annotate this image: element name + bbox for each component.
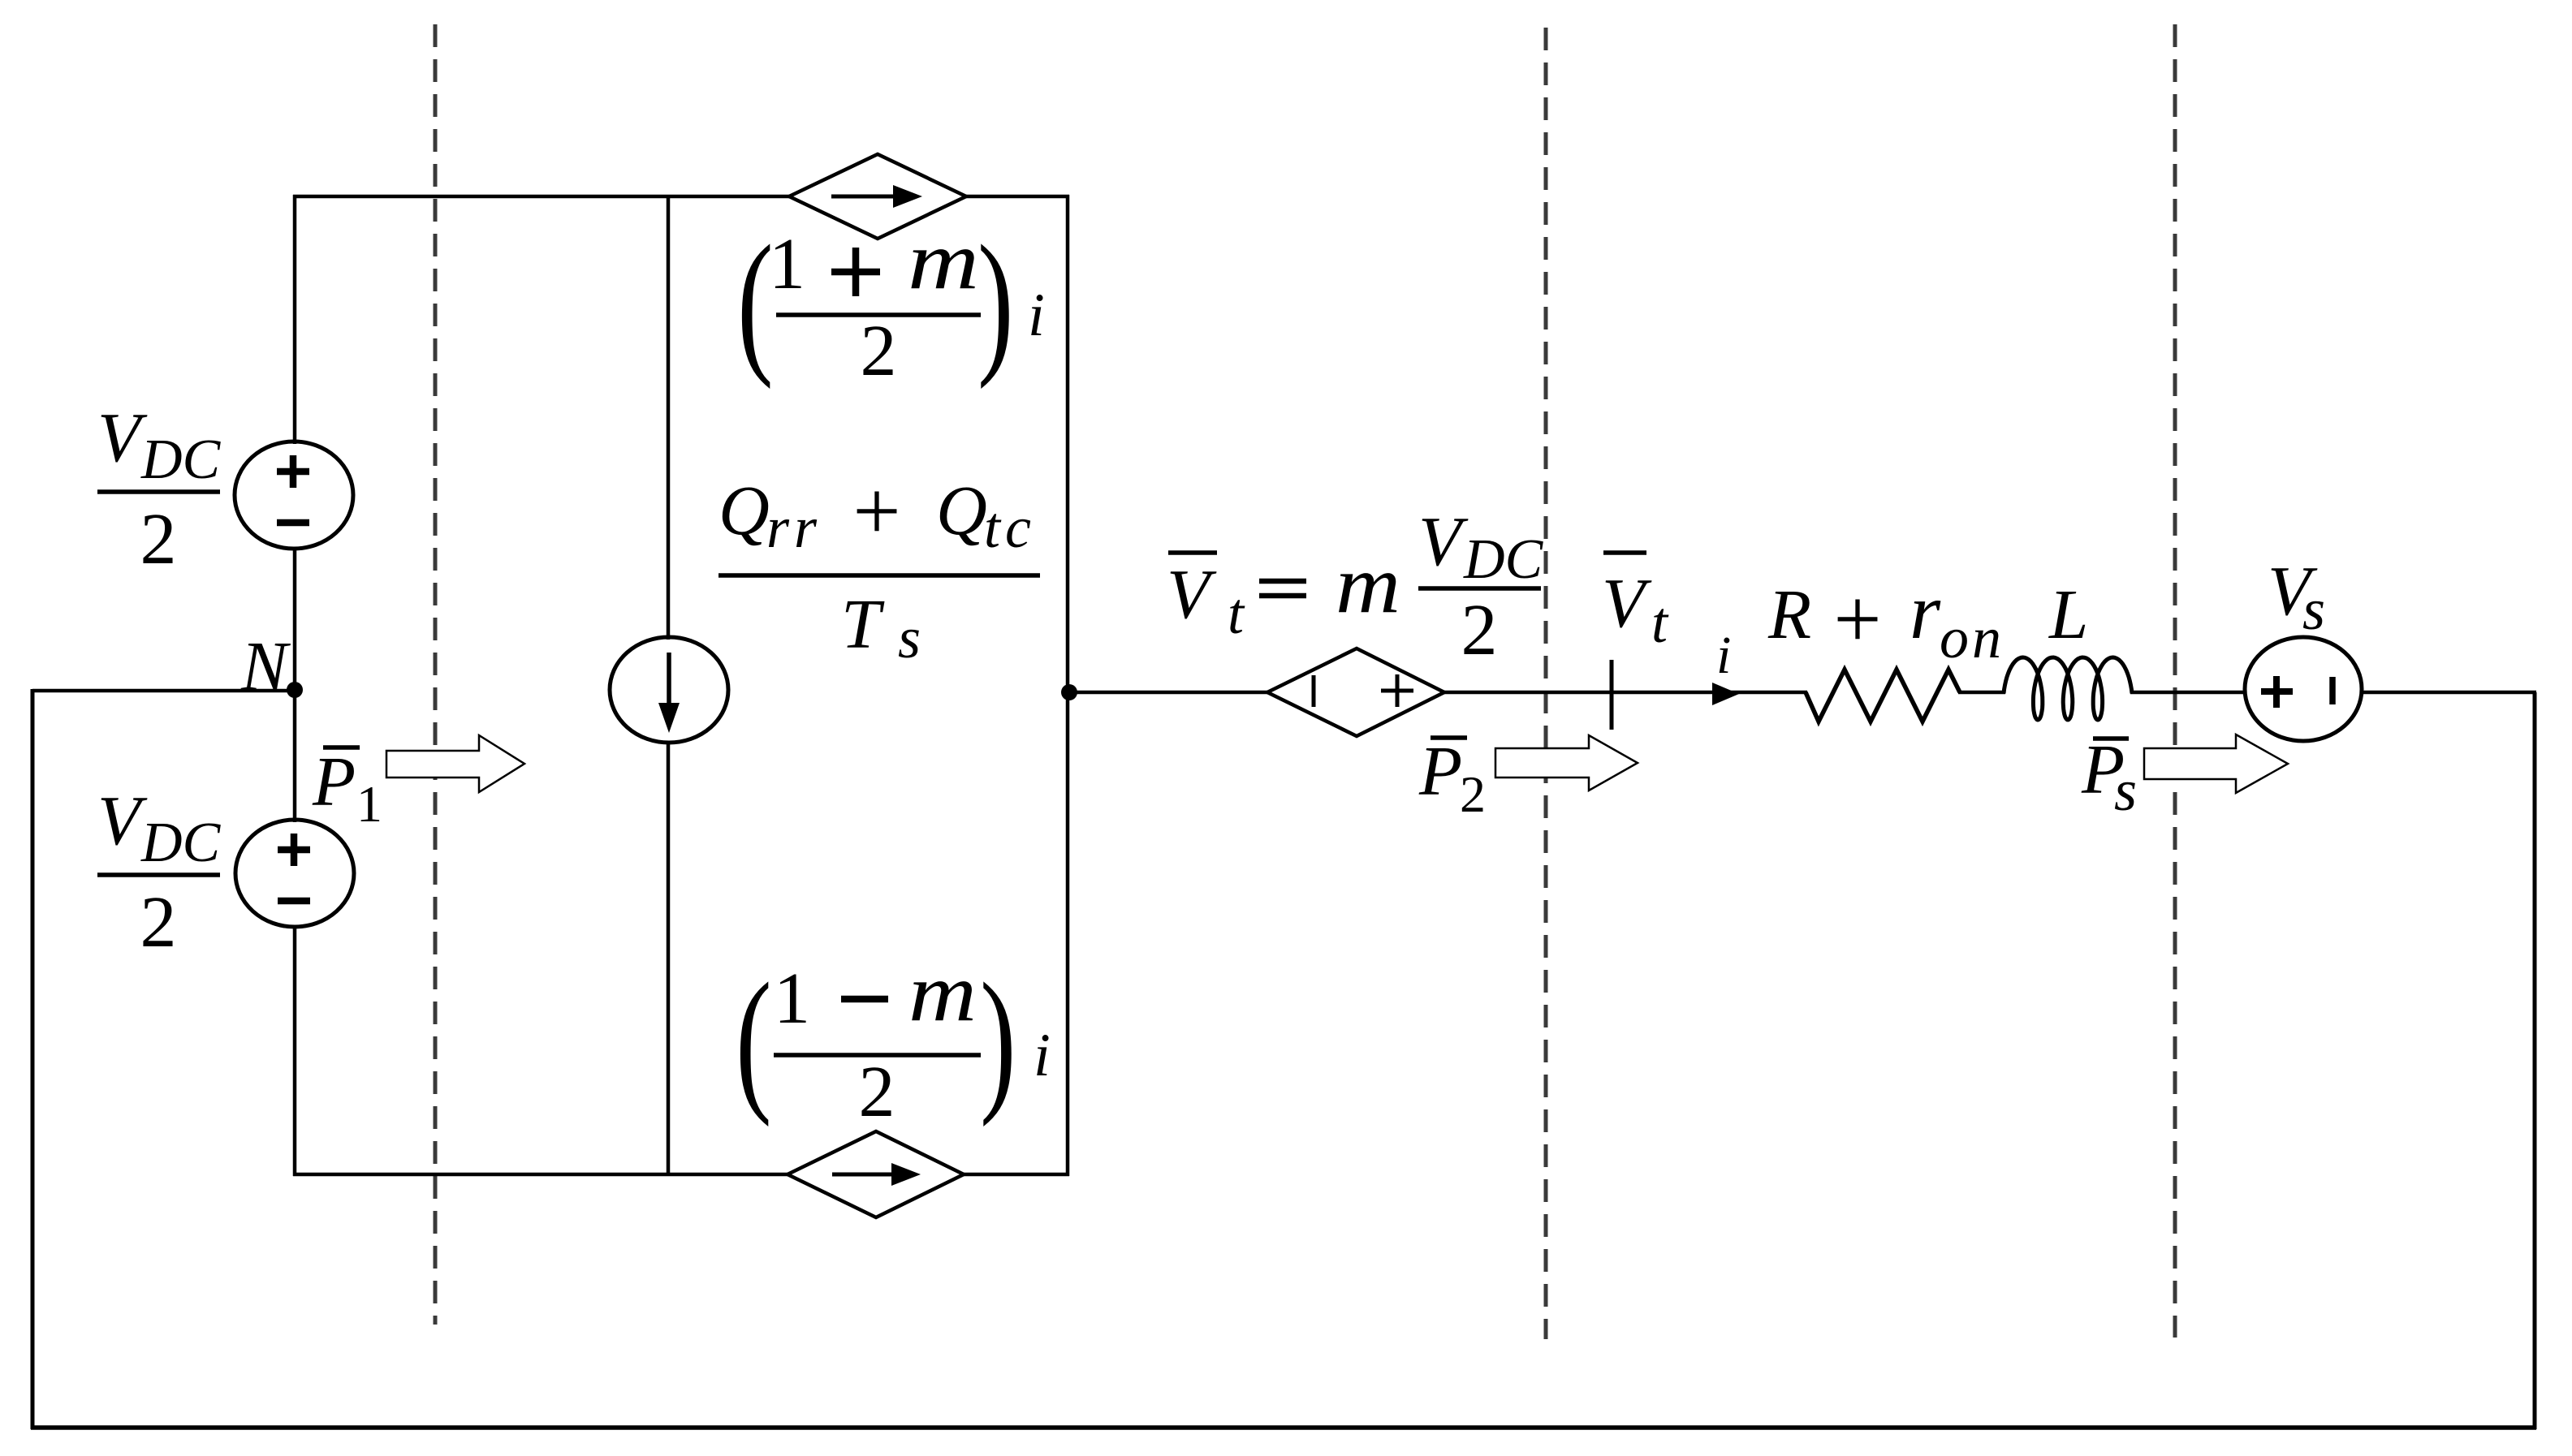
svg-text:on: on: [1940, 605, 2005, 670]
label P2: [1418, 731, 1486, 823]
svg-text:+: +: [852, 463, 900, 558]
label Qrr+Qtc/Ts: [719, 463, 1040, 670]
resistor R+ron: [1806, 670, 1960, 722]
label Ps: [2081, 730, 2137, 823]
svg-text:): ): [977, 213, 1014, 390]
power arrow P2: [1495, 735, 1638, 790]
label VDC/2 lower: [97, 781, 222, 963]
output node dot: [1061, 684, 1077, 700]
dependent current source diamond top: [789, 154, 966, 239]
svg-text:+: +: [1833, 571, 1881, 666]
svg-text:i: i: [1716, 626, 1731, 685]
svg-text:N: N: [240, 627, 291, 705]
svg-text:2: 2: [140, 499, 177, 579]
power arrow Ps: [2144, 734, 2288, 793]
svg-text:V: V: [97, 398, 148, 476]
svg-text:s: s: [2114, 758, 2137, 823]
wire inductor to source Vs: [2130, 691, 2246, 695]
wire outer bottom horizontal: [31, 1425, 2536, 1430]
label (1-m)/2 i bottom: [736, 947, 1051, 1132]
label VDC/2 upper: [97, 398, 222, 579]
label Vs: [2268, 551, 2325, 642]
voltage source Vs: [2245, 637, 2362, 741]
svg-text:2: 2: [140, 882, 177, 963]
svg-text:t: t: [1228, 581, 1245, 646]
svg-text:P: P: [1418, 731, 1462, 810]
svg-text:): ): [980, 951, 1016, 1128]
svg-text:m: m: [1336, 539, 1400, 631]
label (1+m)/2 i top: [737, 213, 1045, 391]
svg-text:tc: tc: [984, 495, 1036, 560]
svg-text:V: V: [1418, 502, 1469, 580]
svg-text:2: 2: [1460, 765, 1486, 823]
wire output node to dependent source: [1068, 691, 1271, 695]
svg-text:2: 2: [859, 1052, 895, 1132]
boundary dashed line 3: [2173, 24, 2177, 1338]
svg-text:i: i: [1034, 1022, 1051, 1089]
wire inner bottom left segment: [293, 1173, 791, 1177]
svg-text:2: 2: [861, 311, 897, 391]
wire inner right vertical: [1066, 195, 1070, 1176]
controlled current source circle: [610, 637, 728, 743]
svg-text:DC: DC: [1463, 528, 1544, 591]
wire middle vertical upper: [667, 195, 671, 640]
label Vt = m VDC/2: [1167, 502, 1544, 670]
svg-text:2: 2: [1461, 590, 1498, 670]
svg-text:s: s: [898, 605, 921, 670]
boundary dashed line 1: [434, 24, 438, 1325]
inductor L: [2004, 657, 2132, 720]
svg-text:(: (: [737, 213, 774, 390]
dependent voltage source diamond: [1267, 648, 1444, 736]
svg-text:t: t: [1651, 590, 1669, 655]
wire outer right vertical: [2533, 692, 2537, 1429]
wire resistor to inductor: [1958, 691, 2005, 695]
wire left branch vertical lower: [293, 925, 297, 1176]
svg-text:1: 1: [769, 224, 805, 304]
wire inner bottom right segment: [961, 1173, 1069, 1177]
current arrow on wire: [1712, 683, 1739, 705]
wire dependent source to resistor: [1441, 691, 1807, 695]
wire top horizontal left segment: [293, 195, 791, 199]
svg-text:r: r: [1910, 568, 1941, 656]
svg-text:L: L: [2048, 575, 2088, 653]
svg-text:s: s: [2302, 577, 2325, 642]
wire source Vs to right corner: [2361, 691, 2536, 695]
svg-text:(: (: [736, 951, 772, 1128]
label P1: [312, 742, 382, 833]
svg-text:V: V: [97, 781, 148, 859]
boundary dashed line 2: [1544, 28, 1548, 1339]
wire middle vertical lower: [667, 741, 671, 1176]
wire outer left vertical: [31, 689, 35, 1429]
svg-text:Q: Q: [719, 471, 770, 549]
node N: [240, 627, 303, 705]
svg-text:rr: rr: [766, 495, 822, 560]
dependent current source diamond bottom: [788, 1131, 964, 1217]
svg-text:Q: Q: [936, 471, 987, 549]
svg-text:P: P: [312, 742, 356, 821]
voltage source VDC/2 lower: [235, 820, 354, 927]
svg-text:m: m: [908, 215, 979, 307]
power arrow P1: [386, 735, 524, 792]
svg-text:DC: DC: [140, 429, 222, 491]
svg-text:1: 1: [356, 775, 382, 833]
svg-text:V: V: [1602, 563, 1652, 642]
wire node N horizontal: [32, 689, 295, 693]
wire top horizontal right segment: [964, 195, 1069, 199]
label Vt tick: [1602, 553, 1669, 730]
svg-text:m: m: [908, 947, 977, 1039]
svg-text:i: i: [1028, 282, 1045, 349]
svg-text:1: 1: [774, 958, 810, 1039]
svg-text:R: R: [1767, 575, 1811, 653]
wire left branch vertical middle: [293, 547, 297, 822]
svg-text:V: V: [1167, 554, 1217, 633]
label R + ron: [1767, 568, 2005, 670]
svg-text:T: T: [841, 584, 885, 663]
svg-text:DC: DC: [140, 812, 222, 874]
voltage source VDC/2 upper: [235, 442, 353, 549]
wire left branch vertical upper: [293, 195, 297, 444]
